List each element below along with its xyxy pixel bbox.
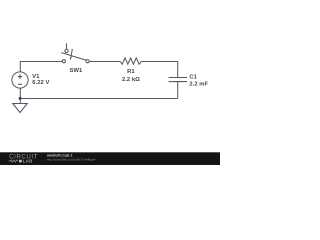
svg-text:http://circuitlab.com/c/5k7s74: http://circuitlab.com/c/5k7s74d8qp4	[47, 158, 96, 162]
junction node	[19, 97, 22, 100]
wire capacitor to bottom rail	[177, 82, 179, 98]
voltage source V1	[12, 72, 28, 88]
wire bottom rail	[20, 98, 178, 100]
switch SW1	[61, 43, 89, 63]
svg-text:C1: C1	[189, 75, 197, 81]
capacitor C1	[169, 78, 187, 82]
ground	[13, 99, 28, 113]
footer bar	[0, 152, 220, 165]
svg-text:SW1: SW1	[70, 68, 83, 74]
resistor R1	[120, 58, 141, 64]
svg-text:2.2 kΩ: 2.2 kΩ	[122, 77, 140, 83]
wire top-left corner from V1 to switch	[20, 62, 62, 72]
wire switch to resistor	[89, 61, 120, 63]
svg-text:R1: R1	[127, 69, 135, 75]
wire resistor to capacitor branch	[141, 62, 178, 78]
svg-text:6.22 V: 6.22 V	[32, 80, 49, 86]
CircuitLab logo	[9, 154, 38, 164]
svg-text:2.2 mF: 2.2 mF	[189, 81, 208, 87]
svg-text:LAB: LAB	[23, 158, 33, 163]
wire V1 bottom	[19, 88, 21, 98]
